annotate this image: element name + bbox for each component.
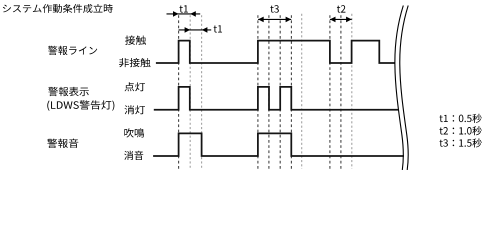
dashed event line t2 end x=351.8: [351, 14, 353, 169]
dashed event line t3 end x=291.4: [290, 15, 292, 169]
dimension label t1 (second): [214, 25, 222, 32]
dashed event line t1 end x=190.2: [189, 15, 191, 169]
level label 接触: [125, 36, 146, 45]
dashed event line release x=329.9: [329, 15, 331, 169]
dimension t2 (release time): [330, 17, 352, 23]
waveform 警報ライン (alarm line contact signal): [156, 41, 395, 63]
dashed event line sound end x=201.6: [201, 15, 203, 169]
level label 消音: [124, 151, 143, 160]
dashed event line t3+t1 x=301.7: [301, 14, 303, 169]
break symbol (time axis cut) left curve: [395, 6, 403, 171]
level label 点灯: [124, 82, 145, 91]
dashed event line second onset x=257.9: [257, 15, 259, 169]
dimension label t3: [270, 5, 279, 13]
dashed event line t=0 (rise) x=178.6: [178, 15, 180, 169]
legend t3：1.5秒: [440, 138, 482, 147]
level label 非接触: [119, 58, 151, 67]
dashed event line blink off x=268.9: [268, 15, 270, 169]
title text システム作動条件成立時: [3, 4, 113, 13]
level label 吹鳴: [124, 128, 144, 137]
legend t1：0.5秒: [440, 114, 482, 123]
row label (LDWS警告灯): [47, 100, 114, 110]
level label 消灯: [125, 105, 145, 114]
dashed event line blink on x=280.2: [279, 15, 281, 169]
dashed event line release mid x=340.9: [340, 15, 342, 169]
waveform 警報音 alarm sound signal: [153, 133, 404, 156]
dimension label t1 (first): [180, 5, 188, 12]
row label 警報表示: [48, 87, 89, 96]
row label 警報音: [47, 139, 78, 148]
break symbol right curve: [400, 6, 408, 171]
dimension t3 (warning duration): [258, 17, 291, 23]
row label 警報ライン: [48, 46, 97, 55]
dimension t1 second (sound hold time): [179, 27, 212, 33]
legend t2：1.0秒: [440, 126, 482, 135]
dimension t1 first (pulse width): [167, 11, 201, 17]
dimension label t2: [337, 5, 346, 13]
waveform 警報表示 LDWS warning lamp signal: [154, 87, 398, 110]
